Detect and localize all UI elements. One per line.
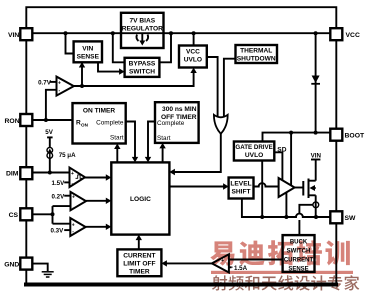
svg-text:THERMAL: THERMAL <box>240 48 272 55</box>
svg-text:TIMER: TIMER <box>129 269 150 276</box>
svg-text:SD: SD <box>277 147 286 154</box>
svg-text:0.7V: 0.7V <box>38 79 52 86</box>
svg-text:GATE DRIVE: GATE DRIVE <box>235 144 272 151</box>
svg-text:REGULATOR: REGULATOR <box>122 26 163 33</box>
svg-text:0.3V: 0.3V <box>51 227 65 234</box>
svg-text:CURRENT: CURRENT <box>123 253 155 260</box>
svg-text:300 ns MIN: 300 ns MIN <box>162 106 197 113</box>
svg-text:1.5A: 1.5A <box>234 265 248 272</box>
svg-text:+: + <box>72 194 75 200</box>
svg-text:Complete: Complete <box>157 120 185 127</box>
svg-text:7V BIAS: 7V BIAS <box>129 18 155 25</box>
svg-text:1.5V: 1.5V <box>52 180 66 187</box>
svg-text:VCC: VCC <box>346 32 360 39</box>
svg-text:5V: 5V <box>45 129 53 136</box>
svg-text:GND: GND <box>4 262 19 269</box>
svg-text:VCC: VCC <box>186 49 200 56</box>
svg-text:+: + <box>58 80 61 86</box>
svg-text:CS: CS <box>9 212 19 219</box>
svg-text:ON TIMER: ON TIMER <box>83 108 115 115</box>
svg-text:LEVEL: LEVEL <box>230 181 251 188</box>
svg-text:SWITCH: SWITCH <box>129 69 155 76</box>
svg-text:SW: SW <box>345 215 357 222</box>
svg-text:VIN: VIN <box>82 46 93 53</box>
svg-text:RON: RON <box>5 118 20 125</box>
svg-text:Complete: Complete <box>96 120 124 127</box>
svg-text:UVLO: UVLO <box>184 57 202 64</box>
svg-text:Start: Start <box>157 135 171 142</box>
svg-text:+: + <box>72 222 75 228</box>
svg-text:-: - <box>231 264 233 271</box>
svg-text:75 μA: 75 μA <box>59 152 76 159</box>
svg-text:BOOT: BOOT <box>345 133 365 140</box>
svg-text:DIM: DIM <box>6 171 19 178</box>
svg-text:BYPASS: BYPASS <box>129 61 156 68</box>
svg-text:VIN: VIN <box>8 32 19 39</box>
svg-text:LIMIT OFF: LIMIT OFF <box>123 261 155 268</box>
svg-text:SHIFT: SHIFT <box>231 189 250 196</box>
svg-text:0.2V: 0.2V <box>52 193 66 200</box>
svg-text:+: + <box>71 171 74 177</box>
svg-text:VIN: VIN <box>311 153 322 160</box>
svg-text:ON: ON <box>81 123 89 128</box>
svg-text:SENSE: SENSE <box>77 54 100 61</box>
svg-text:LOGIC: LOGIC <box>130 196 151 203</box>
svg-text:Start: Start <box>110 135 124 142</box>
svg-text:SHUTDOWN: SHUTDOWN <box>237 56 276 63</box>
svg-text:UVLO: UVLO <box>245 152 263 159</box>
